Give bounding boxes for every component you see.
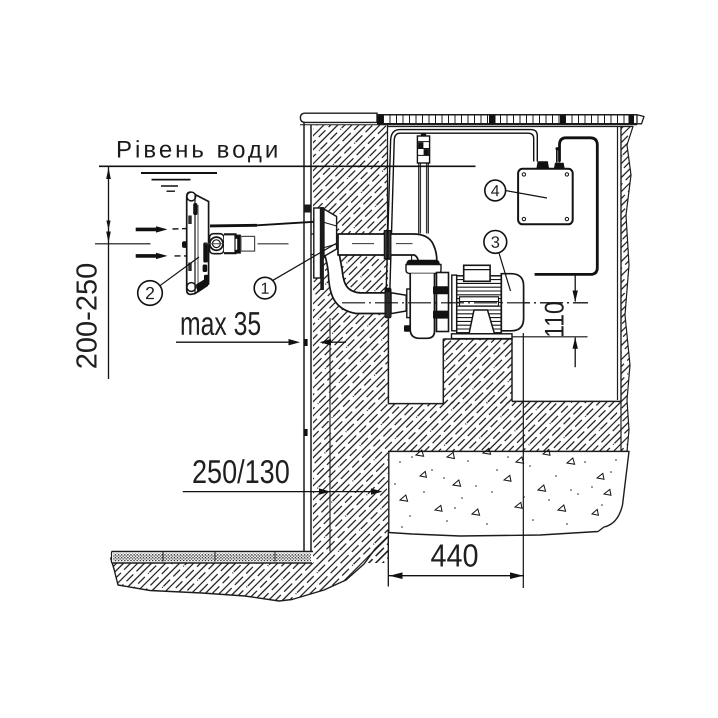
svg-text:250/130: 250/130 [192,455,290,491]
svg-text:200-250: 200-250 [71,263,103,369]
svg-text:110: 110 [540,301,570,338]
svg-text:3: 3 [491,234,500,252]
svg-text:max 35: max 35 [180,307,261,343]
svg-text:Рівень води: Рівень води [116,137,281,164]
svg-text:2: 2 [145,283,155,303]
svg-text:440: 440 [430,538,478,574]
svg-text:4: 4 [491,183,500,200]
svg-text:1: 1 [261,281,270,298]
